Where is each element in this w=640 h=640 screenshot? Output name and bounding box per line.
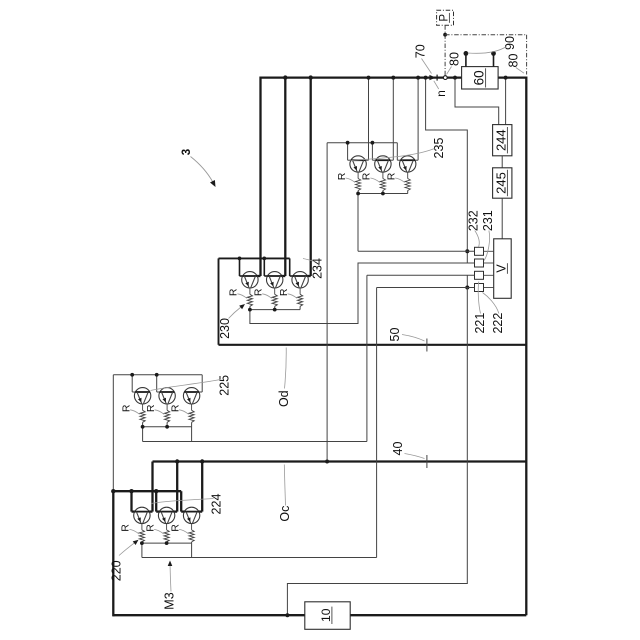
label 224 with leader	[151, 494, 224, 515]
wire: thick collector feeds from line 40 to group 224	[149, 459, 205, 511]
resistor R1 of group 234 (R)	[247, 288, 252, 306]
svg-text:90: 90	[503, 36, 517, 50]
resistor R2 of group 224 (R)	[164, 524, 169, 542]
voltage detector box V	[494, 239, 512, 298]
svg-text:231: 231	[481, 210, 495, 231]
transistor Q3 of group 235	[400, 156, 416, 172]
transistor Q2 of group 225	[159, 388, 175, 404]
svg-text:225: 225	[217, 375, 231, 396]
label R for R3 of group 234	[278, 288, 297, 298]
svg-text:3: 3	[181, 149, 193, 155]
wire: main bus (node n power line)	[261, 76, 527, 78]
wire: line 50	[219, 344, 527, 346]
label 70 with leader	[414, 44, 432, 73]
wire: bottom power line	[113, 614, 526, 616]
wire: collector feeds bus to group 235	[365, 76, 420, 161]
wire: node n sense line to current sensors	[424, 76, 468, 252]
monitor box 245	[493, 168, 512, 198]
label 50	[388, 328, 425, 342]
wire: bus tap left of relay to 244	[453, 76, 499, 125]
relay box 60	[462, 67, 499, 89]
break tick on line 50	[426, 339, 428, 352]
svg-text:245: 245	[493, 172, 508, 194]
svg-text:R: R	[144, 524, 156, 532]
label 80 right with leader	[506, 54, 524, 74]
wire: emitter rail of group 235	[356, 191, 408, 196]
resistor R2 of group 235 (R)	[380, 172, 385, 190]
svg-text:40: 40	[391, 442, 405, 456]
svg-text:R: R	[169, 524, 181, 532]
node n open terminal on bus	[443, 76, 447, 80]
label 220 with arrow leader	[110, 540, 139, 581]
transistor Q2 of group 235	[375, 156, 391, 172]
transistor Q2 of group 224	[158, 507, 174, 523]
label 80 left with leader	[447, 52, 462, 74]
wire: thick collector feeds from bus to group 234	[257, 75, 313, 276]
transistor Q1 of group 224	[134, 507, 150, 523]
svg-text:R: R	[336, 172, 348, 180]
control box 10	[305, 602, 350, 630]
svg-text:80: 80	[506, 54, 520, 68]
wire: wrap line from 235 base rail down to line 40	[325, 143, 329, 464]
wire: sense line from group 224 to sensor 222	[142, 288, 475, 558]
wire: base rail of group 234	[219, 257, 294, 277]
wire: sense line from group 225 to sensor 221	[143, 275, 475, 441]
svg-text:232: 232	[467, 210, 481, 231]
svg-text:R: R	[145, 404, 157, 412]
label 90 with leader to terminals	[468, 36, 517, 53]
terminal stub left of 60 (to 90)	[464, 51, 469, 67]
label R for R1 of group 224	[120, 524, 139, 534]
transistor Q1 of group 225	[134, 388, 150, 404]
monitor box 244	[493, 125, 512, 156]
label R for R1 of group 235	[336, 172, 355, 182]
label Oc with leader	[278, 465, 292, 522]
label n with leader	[434, 81, 448, 97]
svg-text:n: n	[434, 90, 448, 97]
svg-text:70: 70	[414, 44, 428, 58]
label figure number 3 with arrow	[181, 149, 215, 187]
wire: emitter rail of group 224	[140, 541, 192, 545]
wire: right side vertical power line	[525, 77, 527, 616]
dash-dot line from P to node n	[444, 25, 446, 75]
dash-dot branch line to right corner	[445, 35, 526, 75]
svg-text:224: 224	[210, 494, 224, 515]
label 231 with leader	[481, 210, 495, 260]
svg-text:244: 244	[493, 129, 508, 151]
wire: left side vertical line	[112, 375, 114, 617]
222 sensor square	[475, 284, 484, 292]
svg-text:50: 50	[388, 328, 402, 342]
current direction arrow on bus	[429, 75, 437, 81]
wire: feed from line 50 to group 234 base rail	[218, 258, 220, 344]
svg-text:R: R	[385, 172, 397, 180]
svg-text:R: R	[228, 288, 240, 296]
label R for R2 of group 234	[252, 288, 271, 298]
label R for R2 of group 224	[144, 524, 163, 534]
resistor R1 of group 224 (R)	[139, 524, 144, 542]
221 sensor square	[475, 271, 484, 279]
wire: sensor 222 line down to bottom line near box 10	[285, 288, 467, 618]
svg-text:V: V	[494, 264, 508, 273]
svg-text:Od: Od	[277, 390, 291, 407]
terminal stub right of 60 (to 90)	[491, 51, 496, 67]
232 sensor square	[475, 247, 484, 255]
resistor R1 of group 235 (R)	[356, 172, 361, 190]
label 232 with leader	[467, 210, 481, 247]
resistor R1 of group 225 (R)	[140, 404, 145, 422]
label R for R1 of group 225	[120, 404, 139, 414]
wire: 244 to 245	[501, 156, 503, 168]
svg-text:220: 220	[110, 560, 124, 581]
label Od with leader	[277, 348, 291, 408]
wire: bus tap right of relay to 244	[504, 76, 508, 125]
wire: base rail of group 224	[111, 489, 185, 512]
wire: bridge between sensors 221/222	[465, 275, 469, 289]
svg-text:R: R	[120, 404, 132, 412]
label R for R3 of group 235	[385, 172, 404, 182]
transistor Q1 of group 235	[350, 156, 366, 172]
transistor Q3 of group 225	[183, 388, 199, 404]
wire: base rail of group 225	[113, 373, 202, 392]
label R for R3 of group 224	[169, 524, 188, 534]
label 230 with arrow leader	[218, 304, 245, 339]
label R for R2 of group 235	[361, 172, 380, 182]
label R for R2 of group 225	[145, 404, 164, 414]
wire: 245 to voltage detector V	[501, 198, 503, 239]
resistor R3 of group 225 (R)	[189, 404, 194, 422]
svg-text:M3: M3	[162, 592, 176, 609]
svg-text:R: R	[361, 172, 373, 180]
resistor R2 of group 234 (R)	[272, 288, 277, 306]
svg-text:R: R	[278, 288, 290, 296]
wire: sense line from group 235 to sensor 232	[358, 194, 475, 252]
resistor R3 of group 234 (R)	[298, 288, 303, 306]
resistor R3 of group 235 (R)	[405, 172, 410, 190]
svg-text:235: 235	[432, 138, 446, 159]
transistor Q3 of group 224	[183, 507, 199, 523]
svg-text:80: 80	[447, 52, 461, 66]
label 40	[391, 442, 424, 459]
label R for R3 of group 225	[169, 404, 188, 414]
svg-text:10: 10	[319, 608, 333, 622]
label 225 with leader	[151, 375, 232, 396]
label M3 with arrow leader	[162, 561, 176, 610]
wire: emitter rail of group 234	[248, 306, 300, 311]
svg-text:221: 221	[473, 313, 487, 334]
wire: sense line from group 234 to sensor 231	[250, 263, 475, 324]
svg-text:P: P	[439, 14, 451, 22]
label 222 with leader	[483, 293, 506, 334]
wire: emitter rail of group 225	[141, 422, 192, 428]
resistor R3 of group 224 (R)	[189, 524, 194, 542]
label R for R1 of group 234	[228, 288, 247, 298]
resistor R2 of group 225 (R)	[165, 404, 170, 422]
wire: sensor connectors to V box	[484, 251, 494, 287]
svg-text:R: R	[169, 404, 181, 412]
svg-text:230: 230	[218, 318, 232, 339]
transistor Q1 of group 234	[242, 272, 258, 288]
svg-text:222: 222	[491, 313, 505, 334]
svg-text:60: 60	[471, 70, 486, 85]
wire: bridge between sensors 232/231	[465, 249, 469, 263]
wire: base rail of group 235	[327, 141, 401, 160]
battery box P	[437, 10, 454, 25]
label 234 with leader	[303, 258, 324, 279]
label 235 with leader	[351, 138, 446, 161]
svg-text:R: R	[252, 288, 264, 296]
231 sensor square	[475, 259, 484, 267]
transistor Q3 of group 234	[292, 272, 308, 288]
label 221 with leader	[473, 282, 487, 334]
break tick on line 40	[426, 455, 428, 468]
svg-text:Oc: Oc	[278, 506, 292, 522]
junction dot on P line	[443, 33, 447, 37]
transistor Q2 of group 234	[267, 272, 283, 288]
wire: line 40	[153, 460, 527, 462]
svg-text:R: R	[120, 524, 132, 532]
